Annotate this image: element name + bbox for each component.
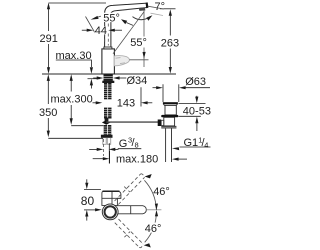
svg-text:46°: 46°	[153, 186, 170, 198]
55 left arc arrow	[91, 16, 99, 20]
svg-text:44: 44	[95, 25, 107, 37]
plan base circles	[102, 204, 118, 220]
svg-text:max.300: max.300	[51, 93, 93, 105]
svg-text:55°: 55°	[130, 37, 147, 49]
hose nut band	[101, 135, 113, 138]
waste body	[165, 105, 176, 115]
svg-text:40-53: 40-53	[183, 106, 211, 118]
dimension 143	[93, 102, 97, 104]
swing arc under spout	[133, 16, 151, 19]
svg-text:350: 350	[39, 107, 57, 119]
dimension 80	[86, 179, 88, 183]
handle lever	[114, 56, 129, 66]
spout tip	[146, 2, 149, 8]
dimension max.300	[71, 81, 103, 126]
hose ends	[103, 138, 111, 144]
dimension max.180	[109, 151, 111, 164]
dimension O63	[153, 84, 211, 102]
plan spout bar	[117, 206, 146, 214]
dimension 263	[160, 8, 176, 10]
spout neck tube	[105, 3, 148, 47]
pop-up rod	[106, 121, 158, 123]
arc arrowhead upper tip	[145, 174, 152, 178]
55 lower arrow	[143, 52, 146, 59]
svg-text:Ø63: Ø63	[185, 76, 206, 88]
svg-text:291: 291	[40, 33, 58, 45]
55 right arc arrow	[121, 19, 127, 24]
svg-text:7°: 7°	[155, 1, 166, 13]
waste tailpipe	[166, 128, 172, 162]
svg-text:263: 263	[161, 38, 179, 50]
svg-text:4: 4	[204, 141, 208, 150]
dimension 291	[47, 3, 106, 74]
dashed arm up	[115, 174, 145, 205]
lower threads	[104, 125, 112, 135]
angle 46 lower	[144, 223, 159, 233]
svg-text:max.180: max.180	[116, 154, 158, 166]
svg-text:143: 143	[117, 97, 135, 109]
55 lower diagonal line	[113, 12, 144, 54]
dashed arm down	[115, 219, 143, 248]
plan handle	[102, 191, 121, 205]
svg-text:8: 8	[135, 141, 139, 150]
aerator	[139, 8, 146, 11]
angle 55deg upper	[103, 13, 119, 22]
55 left ray	[86, 17, 96, 34]
dimension 350	[48, 81, 103, 139]
counter top line	[42, 73, 176, 75]
arc arrowhead lower tip	[144, 243, 151, 247]
label G3/8	[89, 148, 98, 150]
svg-text:G: G	[119, 138, 128, 150]
waste nut	[161, 126, 176, 128]
svg-text:80: 80	[81, 194, 95, 208]
body	[102, 49, 115, 74]
dimension 44	[82, 29, 88, 31]
waste seal ring	[161, 115, 178, 117]
svg-text:Ø34: Ø34	[127, 75, 148, 87]
rod clamp	[158, 120, 162, 127]
44 dashed extensions	[105, 24, 109, 46]
55 lower vertical line	[143, 10, 145, 37]
deck wings	[102, 81, 114, 83]
rod pin	[105, 118, 109, 121]
svg-text:46°: 46°	[145, 223, 162, 235]
swivel arc	[144, 180, 156, 210]
dimension O34	[93, 77, 97, 79]
plan centerline	[146, 209, 161, 211]
arc arrowheads at centerline	[155, 204, 158, 211]
collar	[104, 47, 112, 49]
svg-text:55°: 55°	[103, 13, 120, 25]
dimension 40-53	[179, 102, 206, 104]
handle tip horizontal line	[129, 59, 148, 61]
pop-up rod joint	[102, 120, 111, 125]
waste lower body	[164, 117, 175, 126]
counter bottom edge	[88, 78, 101, 80]
threaded shank	[104, 74, 113, 118]
waste flange	[163, 102, 178, 104]
